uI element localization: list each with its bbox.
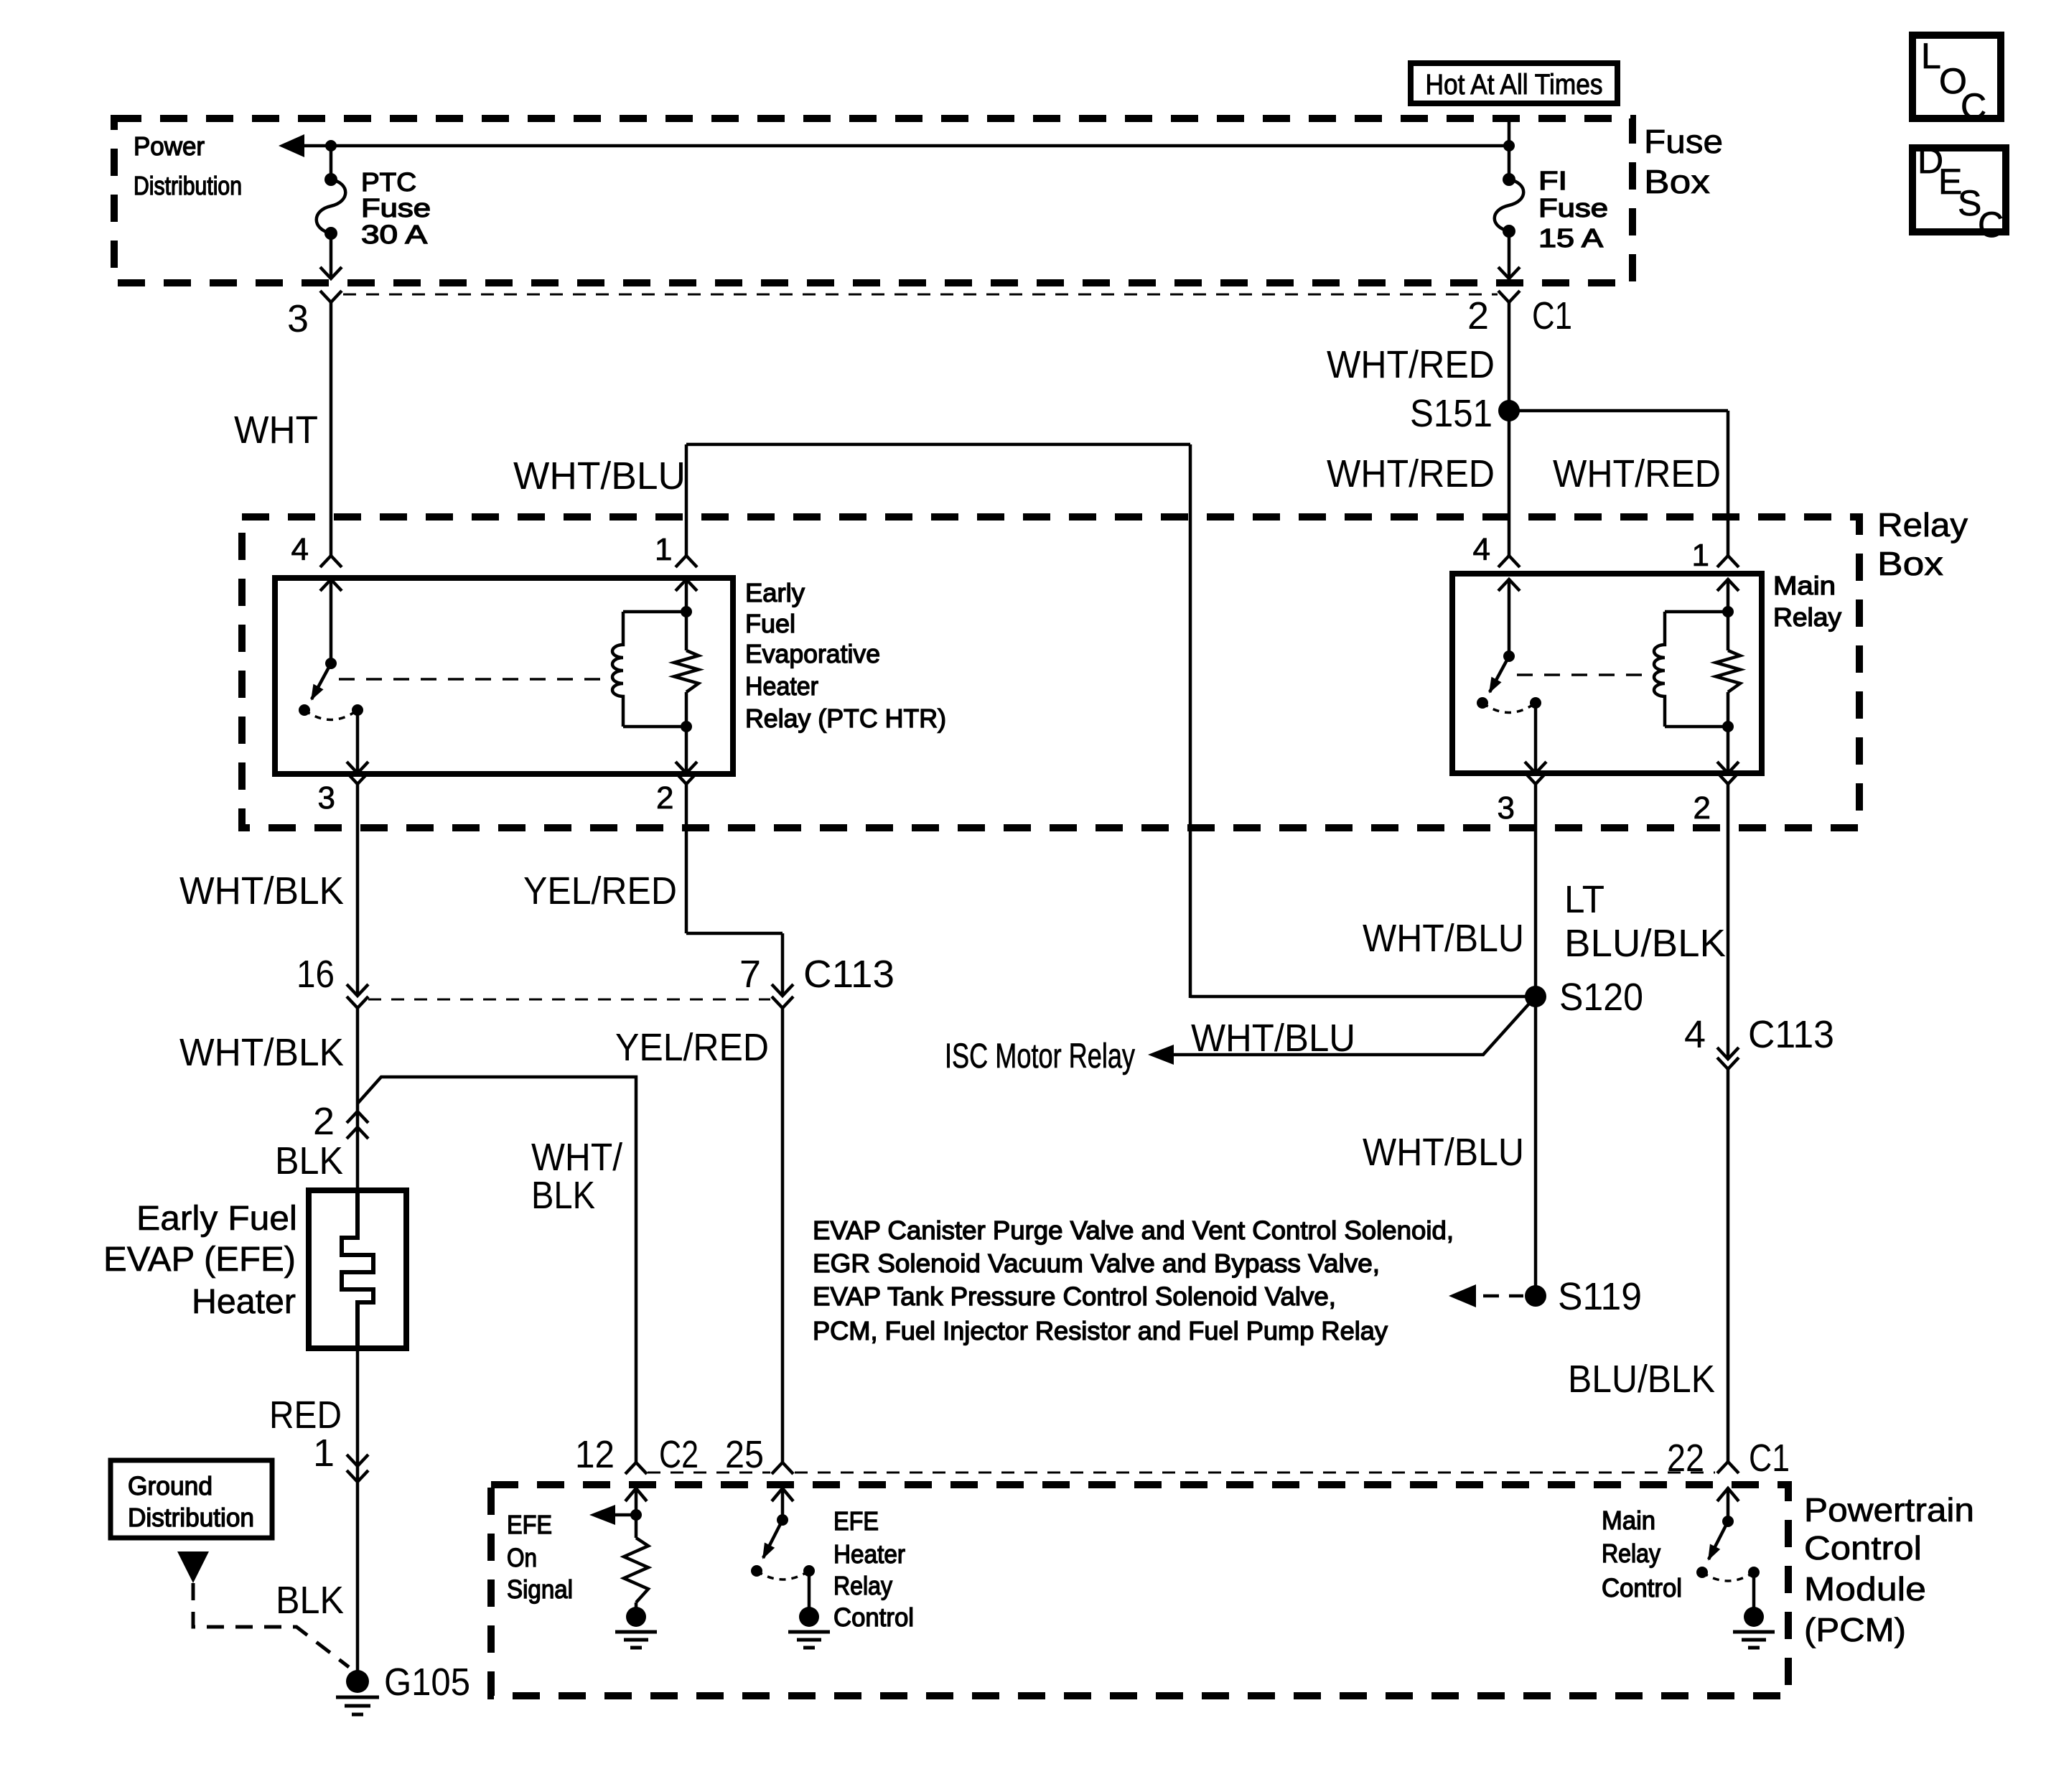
wire: S151 down to main relay pin 4	[1508, 411, 1511, 556]
svg-text:WHT: WHT	[234, 409, 318, 452]
main relay: pin3 arrow down	[1525, 762, 1546, 773]
main relay: pin2 wire and arrow down	[1727, 727, 1730, 773]
svg-text:Fuse: Fuse	[1644, 123, 1723, 160]
svg-text:BLK: BLK	[531, 1174, 595, 1217]
contact dot	[803, 1565, 815, 1577]
relay box (dashed)	[242, 517, 1859, 828]
EFE relay: pin3 arrow down	[347, 762, 368, 773]
main relay control switch dot	[1722, 1516, 1734, 1527]
PCM pin 22 connector	[1717, 1462, 1739, 1473]
svg-text:2: 2	[313, 1100, 335, 1143]
main relay: coil	[1654, 612, 1665, 727]
svg-text:RED: RED	[269, 1394, 342, 1437]
arrowhead to ISC Motor Relay	[1148, 1045, 1174, 1065]
svg-text:EFE: EFE	[507, 1510, 552, 1539]
PCM pin 12 connector	[625, 1462, 647, 1474]
pin 7 C113 connector (arrow+Y)	[772, 984, 793, 996]
svg-text:Relay: Relay	[1773, 602, 1841, 632]
main relay: pin 4 connector	[1498, 556, 1520, 567]
ground distribution arrow (filled triangle)	[177, 1551, 209, 1583]
svg-text:C113: C113	[1748, 1013, 1834, 1056]
EFE heater relay control switch blade	[763, 1520, 783, 1558]
splice S119	[1525, 1285, 1546, 1307]
main relay: pin1 arrow into body	[1717, 579, 1739, 591]
switch throw dot	[751, 1565, 762, 1577]
EFE relay pin 3 exit connector	[347, 773, 368, 784]
wire: Hot At All Times feed rail (y=203)	[302, 144, 1509, 148]
wire: WHT/BLK branch to PCM pin 12	[358, 1077, 636, 1462]
svg-text:On: On	[507, 1543, 537, 1572]
EFE relay: coil	[612, 612, 623, 727]
wire into EFE heater	[356, 1102, 360, 1190]
svg-text:Fuse: Fuse	[361, 193, 431, 223]
arrowhead to Power Distribution	[279, 134, 304, 157]
switch dashed arc	[757, 1571, 809, 1579]
svg-text:Early: Early	[745, 578, 805, 607]
svg-text:(PCM): (PCM)	[1804, 1611, 1906, 1648]
svg-text:G105: G105	[384, 1661, 470, 1704]
wire: EFE relay pin1 riser and WHT/BLU run	[685, 444, 688, 556]
svg-text:EVAP (EFE): EVAP (EFE)	[103, 1241, 296, 1279]
EFE relay: wire to pin 3	[356, 710, 360, 772]
main relay K2 body	[1452, 574, 1762, 773]
EFE relay: pin2 wire and arrow down	[685, 727, 688, 773]
LOC reference box	[1912, 35, 2001, 118]
EFE relay: coil resistor	[674, 650, 699, 692]
svg-text:3: 3	[287, 297, 309, 340]
Hot At All Times box	[1411, 63, 1617, 103]
pin 16 connector (arrow+Y)	[347, 984, 368, 996]
svg-text:LT: LT	[1564, 878, 1604, 921]
svg-text:1: 1	[313, 1432, 335, 1475]
svg-text:4: 4	[291, 532, 309, 567]
svg-text:BLU/BLK: BLU/BLK	[1568, 1358, 1715, 1401]
svg-text:Control: Control	[833, 1602, 914, 1632]
EFE relay: switch blade	[312, 663, 331, 699]
svg-text:S151: S151	[1410, 392, 1493, 435]
EFE heater element	[342, 1190, 373, 1348]
wire: S120 branch to ISC Motor Relay	[1173, 997, 1536, 1055]
dashed stub from S119	[1483, 1294, 1523, 1298]
svg-text:Distribution: Distribution	[134, 171, 242, 200]
main relay: switch dashed arc	[1482, 703, 1536, 713]
contact dot	[1748, 1567, 1760, 1578]
svg-text:Power: Power	[134, 131, 205, 161]
EFE relay: pin1 arrow into body	[676, 579, 697, 591]
svg-text:Main: Main	[1773, 571, 1836, 600]
Ground Distribution box	[111, 1460, 272, 1538]
main relay: pin3 contact dot	[1530, 697, 1541, 709]
male arrow down (fuse box pin 3)	[320, 267, 342, 279]
svg-text:WHT/RED: WHT/RED	[1327, 452, 1495, 495]
main relay control switch blade	[1709, 1521, 1728, 1559]
EFE relay: coil stubs	[623, 610, 686, 614]
svg-text:YEL/RED: YEL/RED	[615, 1026, 769, 1069]
svg-text:Control: Control	[1804, 1529, 1922, 1567]
inline connector 2 (double chevron)	[347, 1111, 368, 1123]
arrowhead from S119 (to EVAP loads)	[1449, 1284, 1476, 1307]
svg-text:Relay: Relay	[1877, 506, 1968, 543]
svg-text:C1: C1	[1749, 1437, 1790, 1480]
EFE On Signal arrow	[615, 1513, 636, 1517]
svg-text:Powertrain: Powertrain	[1804, 1491, 1974, 1529]
switch throw dot	[1696, 1567, 1708, 1578]
svg-text:3: 3	[318, 780, 335, 816]
main relay: switch common dot	[1503, 650, 1515, 662]
svg-text:Evaporative: Evaporative	[745, 639, 880, 668]
svg-text:L: L	[1921, 36, 1941, 76]
svg-text:FI: FI	[1538, 166, 1567, 195]
wire: FI fuse to box edge	[1508, 231, 1511, 279]
DESC reference box	[1912, 148, 2006, 232]
svg-text:WHT/BLU: WHT/BLU	[1191, 1017, 1355, 1060]
svg-text:WHT/BLK: WHT/BLK	[179, 869, 344, 913]
EFE relay: switch common dot	[325, 658, 337, 669]
svg-text:WHT/BLK: WHT/BLK	[179, 1031, 344, 1074]
svg-text:Main: Main	[1602, 1506, 1655, 1535]
ground (EFE On Signal)	[626, 1607, 646, 1627]
svg-text:ISC Motor Relay: ISC Motor Relay	[945, 1037, 1135, 1075]
svg-text:EVAP Tank Pressure Control Sol: EVAP Tank Pressure Control Solenoid Valv…	[813, 1282, 1336, 1311]
svg-text:Ground: Ground	[128, 1471, 212, 1501]
wire: YEL/RED jog to x=1090	[686, 932, 783, 935]
svg-text:WHT/BLU: WHT/BLU	[1363, 917, 1524, 960]
EFE On Signal pull resistor	[635, 1515, 638, 1538]
wire: WHT/BLU horizontal into S120	[1190, 995, 1536, 999]
EFE relay: pin 1 connector	[676, 556, 697, 567]
svg-text:Heater: Heater	[192, 1283, 296, 1321]
main relay pin 2 exit connector	[1717, 773, 1739, 784]
svg-text:WHT/RED: WHT/RED	[1553, 452, 1721, 495]
female connector Y (pin 3)	[320, 291, 342, 302]
svg-text:Module: Module	[1804, 1570, 1926, 1607]
pin 4 C113 connector on BLU/BLK wire	[1717, 1047, 1739, 1059]
svg-text:PTC: PTC	[361, 167, 416, 197]
svg-text:2: 2	[1467, 294, 1489, 337]
svg-text:25: 25	[725, 1433, 764, 1476]
svg-text:Relay: Relay	[1602, 1539, 1660, 1568]
main relay: pin 1 connector	[1717, 556, 1739, 567]
fuse F1 PTC Fuse 30 A	[324, 173, 337, 186]
EFE relay pin 2 exit connector	[676, 773, 697, 784]
svg-text:15 A: 15 A	[1538, 223, 1603, 253]
EFE relay: pin4 arrow into body	[320, 579, 342, 591]
connector C113 line (thin dashed)	[368, 999, 770, 1001]
PCM box (dashed)	[491, 1485, 1788, 1696]
EFE heater R2 body	[309, 1190, 406, 1348]
splice S151	[1498, 400, 1520, 421]
svg-text:S119: S119	[1558, 1275, 1642, 1318]
wire: PTC fuse to fuse-box edge	[330, 233, 333, 279]
switch dashed arc	[1702, 1572, 1754, 1581]
main relay: switch throw dot	[1477, 697, 1488, 709]
connector line below fuse box (thin dashed)	[343, 294, 1498, 296]
svg-text:1: 1	[1692, 538, 1709, 573]
svg-text:WHT/BLU: WHT/BLU	[513, 454, 686, 498]
splice S120	[1525, 986, 1546, 1007]
wire to ground	[808, 1571, 811, 1608]
junction: PTC fuse tap	[325, 140, 337, 151]
svg-text:BLK: BLK	[275, 1139, 343, 1182]
svg-text:Hot At All Times: Hot At All Times	[1426, 69, 1603, 101]
EFE relay: pin3 contact dot	[352, 704, 363, 716]
svg-text:Relay: Relay	[833, 1571, 892, 1600]
dashed link to G105	[193, 1583, 349, 1667]
svg-text:YEL/RED: YEL/RED	[523, 869, 677, 913]
fuse F2 FI Fuse 15 A	[1503, 173, 1515, 186]
svg-text:Distribution: Distribution	[128, 1503, 254, 1532]
svg-text:C: C	[1978, 205, 2004, 245]
svg-text:7: 7	[739, 953, 761, 996]
svg-text:4: 4	[1684, 1013, 1706, 1056]
svg-text:EVAP Canister Purge Valve and: EVAP Canister Purge Valve and Vent Contr…	[813, 1215, 1454, 1245]
svg-text:4: 4	[1473, 532, 1490, 567]
svg-text:Box: Box	[1877, 545, 1943, 582]
ground (EFE heater relay control)	[799, 1607, 819, 1627]
main relay: coil resistor	[1716, 650, 1740, 692]
ground (main relay control)	[1744, 1607, 1764, 1627]
wire to ground	[1752, 1572, 1756, 1608]
ground G105	[346, 1670, 369, 1693]
wire: heater to G105	[356, 1348, 360, 1671]
svg-text:WHT/BLU: WHT/BLU	[1363, 1131, 1524, 1174]
svg-text:WHT/: WHT/	[531, 1136, 622, 1179]
EFE relay: pin 4 connector	[320, 556, 342, 567]
main relay: pin4 arrow into body	[1498, 579, 1520, 591]
inline connector 1 (double chevron)	[347, 1455, 368, 1466]
svg-text:16: 16	[296, 953, 335, 996]
PCM connector line (thin dashed)	[648, 1472, 770, 1474]
svg-text:Fuse: Fuse	[1538, 193, 1608, 223]
svg-text:Fuel: Fuel	[745, 609, 795, 638]
early fuel evaporative heater relay K1 (PTC HTR) body	[275, 578, 733, 774]
svg-text:Early Fuel: Early Fuel	[136, 1200, 297, 1238]
svg-text:2: 2	[656, 780, 673, 816]
male arrow down (fuse box pin 2)	[1498, 267, 1520, 279]
female connector Y (C1 pin 2)	[1498, 291, 1520, 302]
svg-text:WHT/RED: WHT/RED	[1327, 343, 1495, 386]
svg-text:PCM, Fuel Injector Resistor an: PCM, Fuel Injector Resistor and Fuel Pum…	[813, 1316, 1388, 1345]
wire: FI fuse drop from fuse box top	[1508, 121, 1511, 179]
svg-text:Control: Control	[1602, 1573, 1682, 1602]
main relay pin 3 exit connector	[1525, 773, 1546, 784]
svg-text:BLK: BLK	[276, 1579, 344, 1622]
svg-text:12: 12	[575, 1433, 615, 1476]
svg-text:C113: C113	[803, 953, 894, 996]
EFE relay: switch throw dot	[299, 704, 310, 716]
svg-text:3: 3	[1498, 790, 1515, 826]
EFE heater relay control switch dot	[777, 1514, 788, 1526]
svg-text:Relay (PTC HTR): Relay (PTC HTR)	[745, 704, 946, 733]
main relay: wire to pin 3	[1534, 703, 1538, 772]
main relay: switch blade	[1490, 656, 1509, 692]
main relay: actuation dashed link	[1517, 673, 1656, 676]
svg-text:C2: C2	[659, 1433, 699, 1476]
main relay: coil stubs	[1665, 610, 1728, 614]
EFE relay: actuation dashed link	[339, 678, 615, 681]
svg-text:BLU/BLK: BLU/BLK	[1564, 922, 1726, 965]
PCM pin 25 connector	[772, 1462, 793, 1474]
wire: S151 branch to main relay pin 1	[1509, 409, 1728, 413]
svg-text:EGR Solenoid Vacuum Valve and: EGR Solenoid Vacuum Valve and Bypass Val…	[813, 1249, 1380, 1278]
svg-text:S120: S120	[1559, 976, 1643, 1019]
wire: PTC fuse drop	[330, 146, 333, 179]
svg-text:30 A: 30 A	[361, 220, 427, 249]
svg-text:Heater: Heater	[745, 671, 818, 701]
fuse box (dashed)	[114, 118, 1632, 283]
svg-text:EFE: EFE	[833, 1506, 879, 1536]
wire: S120 to S119	[1534, 997, 1538, 1296]
svg-text:C1: C1	[1532, 294, 1572, 337]
svg-text:2: 2	[1694, 790, 1711, 826]
svg-text:Signal: Signal	[507, 1574, 573, 1604]
svg-text:C: C	[1961, 86, 1986, 126]
svg-text:1: 1	[655, 532, 672, 567]
EFE On Signal junction dot	[630, 1509, 642, 1521]
svg-text:Heater: Heater	[833, 1539, 905, 1569]
EFE relay: switch dashed arc	[304, 710, 358, 720]
svg-text:Box: Box	[1644, 163, 1710, 200]
junction on feed rail	[1503, 140, 1515, 151]
